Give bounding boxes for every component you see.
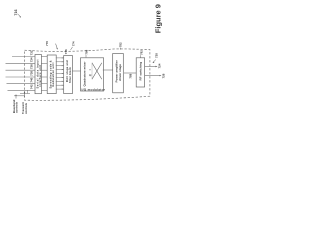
- wire U5 to U6: [124, 72, 136, 74]
- mixer X symbol: [92, 63, 102, 79]
- block U2 data modulator: [47, 55, 56, 94]
- svg-text:Quadrature mixer: Quadrature mixer: [82, 61, 86, 87]
- svg-text:788: 788: [129, 73, 133, 78]
- leader arrow for 720: [153, 60, 156, 63]
- wire b9: [56, 88, 64, 90]
- wire b8: [56, 84, 64, 86]
- wires U1 to U2: [41, 57, 47, 91]
- block U4 quadrature modulator: [81, 58, 104, 91]
- leader for 782: [119, 48, 121, 50]
- input wire 6: [8, 89, 35, 91]
- svg-text:726: 726: [162, 73, 166, 78]
- bottom wire enable: [14, 95, 24, 97]
- svg-text:770: 770: [45, 41, 49, 46]
- input wire 2: [6, 62, 35, 64]
- svg-text:Q: Q: [89, 74, 92, 76]
- svg-text:interface unit: interface unit: [38, 65, 42, 87]
- input wire 4: [6, 76, 35, 78]
- svg-text:modulation unit: modulation unit: [51, 62, 55, 87]
- wire b6: [56, 76, 64, 78]
- bus arrowheads into U3: [62, 57, 64, 89]
- dashed boundary box 718: [25, 49, 150, 100]
- svg-text:724: 724: [158, 63, 162, 68]
- wire a4: [41, 76, 47, 78]
- leader for 770: [56, 44, 58, 50]
- leader arrow for 716: [17, 14, 20, 17]
- block U5 power amplifier: [113, 54, 124, 93]
- wire a2: [41, 62, 47, 64]
- wire a3: [41, 69, 47, 71]
- wire U4 to U5: [103, 69, 113, 71]
- wire b7: [56, 80, 64, 82]
- input wire 3: [6, 69, 35, 71]
- wire a5: [41, 83, 47, 85]
- input wire 1: [12, 56, 35, 58]
- wire b3: [56, 65, 64, 67]
- svg-text:786: 786: [84, 49, 88, 54]
- input wire 5: [7, 83, 35, 85]
- wire a6: [41, 89, 47, 91]
- svg-text:720: 720: [155, 53, 159, 58]
- svg-text:776: 776: [64, 49, 68, 54]
- svg-text:I/Q modulator: I/Q modulator: [82, 87, 106, 91]
- svg-text:716: 716: [14, 9, 18, 15]
- svg-text:738: 738: [30, 71, 34, 76]
- svg-text:782: 782: [119, 42, 123, 47]
- svg-text:controls: controls: [15, 102, 19, 113]
- output wire 1: [145, 66, 157, 68]
- bottom label 2 arrow: [24, 92, 26, 98]
- svg-text:732: 732: [30, 50, 34, 55]
- wire a1: [41, 56, 47, 58]
- leader for 774: [71, 47, 73, 50]
- svg-text:controls: controls: [24, 103, 28, 114]
- wire b5: [56, 73, 64, 75]
- svg-text:driver stage: driver stage: [118, 64, 122, 81]
- output wire 2: [145, 75, 161, 77]
- wire b4: [56, 69, 64, 71]
- bottom wire clock: [20, 93, 30, 95]
- svg-text:Figure 9: Figure 9: [153, 4, 162, 33]
- wire b1: [56, 57, 64, 59]
- junction stub: [27, 90, 29, 93]
- svg-text:734: 734: [30, 57, 34, 62]
- block U3 DAC filters: [64, 56, 73, 94]
- svg-text:RF switching: RF switching: [139, 62, 143, 81]
- block U1 interface: [35, 55, 41, 94]
- bottom label 1 arrow: [15, 95, 17, 99]
- svg-text:736: 736: [30, 64, 34, 69]
- wire b2: [56, 61, 64, 63]
- wire U3 to U4: [72, 70, 81, 72]
- svg-text:filter block: filter block: [68, 67, 72, 83]
- svg-text:774: 774: [71, 41, 75, 46]
- bus U2 to U3: [56, 58, 64, 89]
- svg-text:740: 740: [30, 77, 34, 82]
- svg-text:792: 792: [140, 50, 144, 55]
- block U6 duplexer: [136, 58, 144, 87]
- svg-text:742: 742: [30, 84, 34, 89]
